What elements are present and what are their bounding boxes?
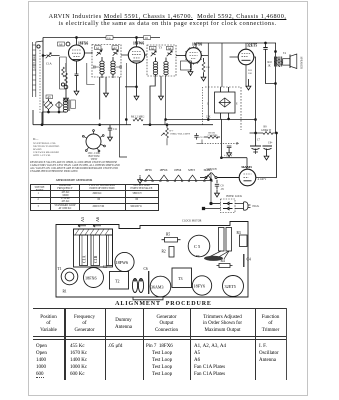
svg-text:32ET5: 32ET5 <box>225 284 236 289</box>
svg-text:C7: C7 <box>257 139 261 142</box>
svg-text:R5: R5 <box>166 233 170 237</box>
svg-text:TEST LOOP: TEST LOOP <box>32 55 35 69</box>
svg-text:A 140 V: A 140 V <box>258 178 267 181</box>
svg-text:1 MEG VOL CONT: 1 MEG VOL CONT <box>170 132 191 135</box>
svg-text:T3: T3 <box>178 276 182 281</box>
svg-text:A5: A5 <box>80 217 85 222</box>
svg-text:E: E <box>236 103 238 106</box>
svg-text:100: 100 <box>248 72 253 75</box>
svg-text:18FW6: 18FW6 <box>160 169 168 172</box>
svg-text:18FX6: 18FX6 <box>78 41 88 45</box>
svg-text:36AM3: 36AM3 <box>241 165 252 169</box>
svg-text:T2: T2 <box>115 279 119 284</box>
svg-text:A6: A6 <box>59 42 63 46</box>
svg-text:A3: A3 <box>151 46 155 50</box>
svg-text:T3: T3 <box>159 46 163 50</box>
svg-text:18FY6: 18FY6 <box>192 43 202 47</box>
svg-text:1200Ω W: 1200Ω W <box>261 129 272 132</box>
svg-text:36AM3: 36AM3 <box>151 285 163 290</box>
svg-text:R6 2.2 MEG: R6 2.2 MEG <box>131 116 144 119</box>
svg-text:PLUG: PLUG <box>253 205 260 208</box>
svg-text:CLOCK MOTOR: CLOCK MOTOR <box>182 220 202 223</box>
svg-text:C8+: C8+ <box>268 142 273 145</box>
svg-text:C1A: C1A <box>46 62 53 66</box>
svg-text:A5: A5 <box>47 95 51 99</box>
svg-text:.05: .05 <box>221 188 225 191</box>
svg-text:18FW6: 18FW6 <box>116 260 129 265</box>
svg-text:R1: R1 <box>63 290 67 294</box>
svg-text:2 WATTS: 2 WATTS <box>208 134 218 137</box>
svg-text:18FX6: 18FX6 <box>85 276 97 281</box>
svg-text:C4: C4 <box>247 258 251 262</box>
svg-text:32ET5: 32ET5 <box>247 44 257 48</box>
svg-text:22K: 22K <box>206 116 211 119</box>
svg-text:18FY6: 18FY6 <box>194 284 206 289</box>
svg-text:C11: C11 <box>113 128 118 131</box>
svg-text:C 5: C 5 <box>194 244 201 249</box>
svg-text:32ET5: 32ET5 <box>188 169 196 172</box>
svg-text:INTER LOCK: INTER LOCK <box>226 195 242 198</box>
svg-text:R3: R3 <box>237 231 241 235</box>
svg-text:C3: C3 <box>103 265 107 269</box>
svg-text:C12: C12 <box>200 136 205 139</box>
svg-text:PC: PC <box>196 254 201 258</box>
svg-text:C1A: C1A <box>82 255 87 263</box>
svg-text:SPEAKER: SPEAKER <box>300 57 303 70</box>
svg-text:R2: R2 <box>162 250 166 254</box>
svg-text:C6: C6 <box>144 267 148 271</box>
svg-text:A6: A6 <box>95 217 100 222</box>
svg-text:18FX6: 18FX6 <box>174 169 182 172</box>
svg-text:1K: 1K <box>268 65 271 68</box>
svg-text:C1B: C1B <box>93 255 98 263</box>
svg-text:A2: A2 <box>113 46 117 50</box>
svg-text:18FW6: 18FW6 <box>133 41 144 45</box>
svg-text:36AM3: 36AM3 <box>204 169 213 172</box>
svg-text:T4: T4 <box>283 52 287 55</box>
svg-text:A1: A1 <box>96 46 100 50</box>
svg-text:T1: T1 <box>58 267 62 271</box>
svg-text:A4: A4 <box>168 46 172 50</box>
svg-text:R4: R4 <box>221 259 225 263</box>
svg-text:C: C <box>207 103 209 106</box>
svg-text:18FY6: 18FY6 <box>145 169 153 172</box>
